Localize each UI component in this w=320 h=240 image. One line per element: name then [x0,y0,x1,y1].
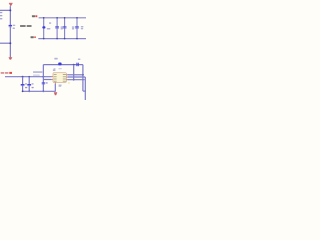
node junction (82.9,74.8) [82,74,84,76]
IC U1 body [53,73,66,83]
wire top horizontal y=64.6 [43,64,83,66]
IC left pin stubs [52,75,54,78]
net label text top rail [32,15,35,17]
ferrite value label below [54,68,56,69]
C2 value label [61,28,63,29]
C1 value label [47,28,51,29]
IC right pin stubs [66,74,67,77]
wire vertical x=73.7 [73,65,75,80]
node junction (43.35,76.7) [42,76,44,78]
node C3 bottom [64,38,66,40]
node C1 top [43,17,45,19]
dark value text word 1 [20,25,26,27]
V2 cap label [46,82,48,83]
wire A horizontal y=76.7 [5,76,52,78]
net label text bottom rail [31,36,34,38]
wire vertical V1b x=29.2 [28,77,30,92]
node C2 bottom [56,38,58,40]
faint label right of refdes [59,68,62,69]
node junction (22.6,91.3) [22,90,24,92]
IC right pin wire 3 y=79.7 [68,79,85,81]
node C4 top [76,17,78,19]
red net tag bottom rail [34,36,36,38]
ground flag bottom center [54,92,58,95]
wire branch left y=43 [0,42,10,44]
capacitor C2 plates [55,25,59,28]
top power rail [39,17,86,19]
IC right pin wire 2 y=77.0 [68,76,86,78]
node C1 bottom [43,38,45,40]
net label stub 3 (left edge) [0,18,2,19]
V1b cap value label [32,87,34,88]
ground flag (left bottom) [9,57,13,59]
net label stub 2 (left edge) [0,15,2,16]
node junction (73.7,64.6) [73,64,75,66]
bottom ground rail [38,38,86,40]
node junction (29.2,91.3) [28,90,30,92]
capacitor column C4 wire [76,18,78,39]
V1a cap value label [25,87,27,88]
net label stub 1 (left edge) [0,12,2,13]
wire vertical V1a x=22.6 [22,77,24,92]
C1 refdes label [49,23,51,24]
wire branch left y=10 [0,9,10,11]
node C2 top [56,17,58,19]
capacitor C3 plates [63,25,67,28]
V1a cap refdes label [25,83,27,84]
ferrite label above [54,58,57,60]
capacitor C? on left net [9,25,12,26]
capacitor on V1b plates [27,83,31,86]
capacitor column C2 wire [56,18,58,39]
ground rail bottom y=91.3 [23,90,56,92]
node junction (43.35,91.3) [42,90,44,92]
series cap label above [78,59,81,60]
ferrite bead solid body on top wire [58,63,61,66]
red net tag bottom-left block [9,72,12,74]
capacitor C4 plates [75,25,79,28]
IC refdes label above [53,70,56,71]
IC bottom pin wire to ground rail [54,84,56,92]
capacitor column C1 wire [43,18,45,39]
capacitor on V2 plates [42,81,45,84]
capacitor C? labels [13,25,16,26]
node junction (10.35,10.35) [9,9,11,11]
node C3 top [64,17,66,19]
node C4 bottom [76,38,78,40]
capacitor column C3 wire [64,18,66,39]
C4 refdes label [81,26,84,27]
wire vertical V2 x=43.35 [42,65,44,92]
wire vertical V3 x=82.9 [82,65,84,92]
V1b cap refdes label [32,83,34,84]
node junction (22.6,76.7) [22,76,24,78]
text below IC line2 [59,85,62,88]
wire vertical V4 x=85.3 [84,77,86,100]
IC right pin wire 1 y=74.8 [68,74,83,76]
node junction (73.7,79.7) [73,79,75,81]
net text left of IC line1 [33,71,42,72]
red net label text bottom-left block [1,72,5,74]
yellow mark right of IC [68,82,70,84]
wire B horizontal y=79.5 [43,79,51,81]
wire vertical main left net [9,6,11,57]
power flag VCC (top-left) [9,2,13,5]
series capacitor vertical plates on top wire [75,63,78,66]
net text left of IC line2 [33,75,40,76]
IC pin text rows right [63,73,66,76]
C4 value label [81,28,83,29]
C3 refdes label [72,27,75,28]
node junction (10.35,43.2) [9,42,11,44]
capacitor on V1a plates [21,83,25,86]
C2 refdes label [61,27,63,28]
wire bottom right corner [83,90,86,92]
red net tag top rail [35,15,37,17]
IC pin text rows left [54,73,57,76]
node junction (29.2,76.7) [28,76,30,78]
dark value text word 2 [27,25,32,27]
text below IC line1 [59,85,62,86]
C3 value label [72,28,74,29]
polarized capacitor C1 body [42,26,45,28]
IC bottom pin stub [54,82,57,83]
